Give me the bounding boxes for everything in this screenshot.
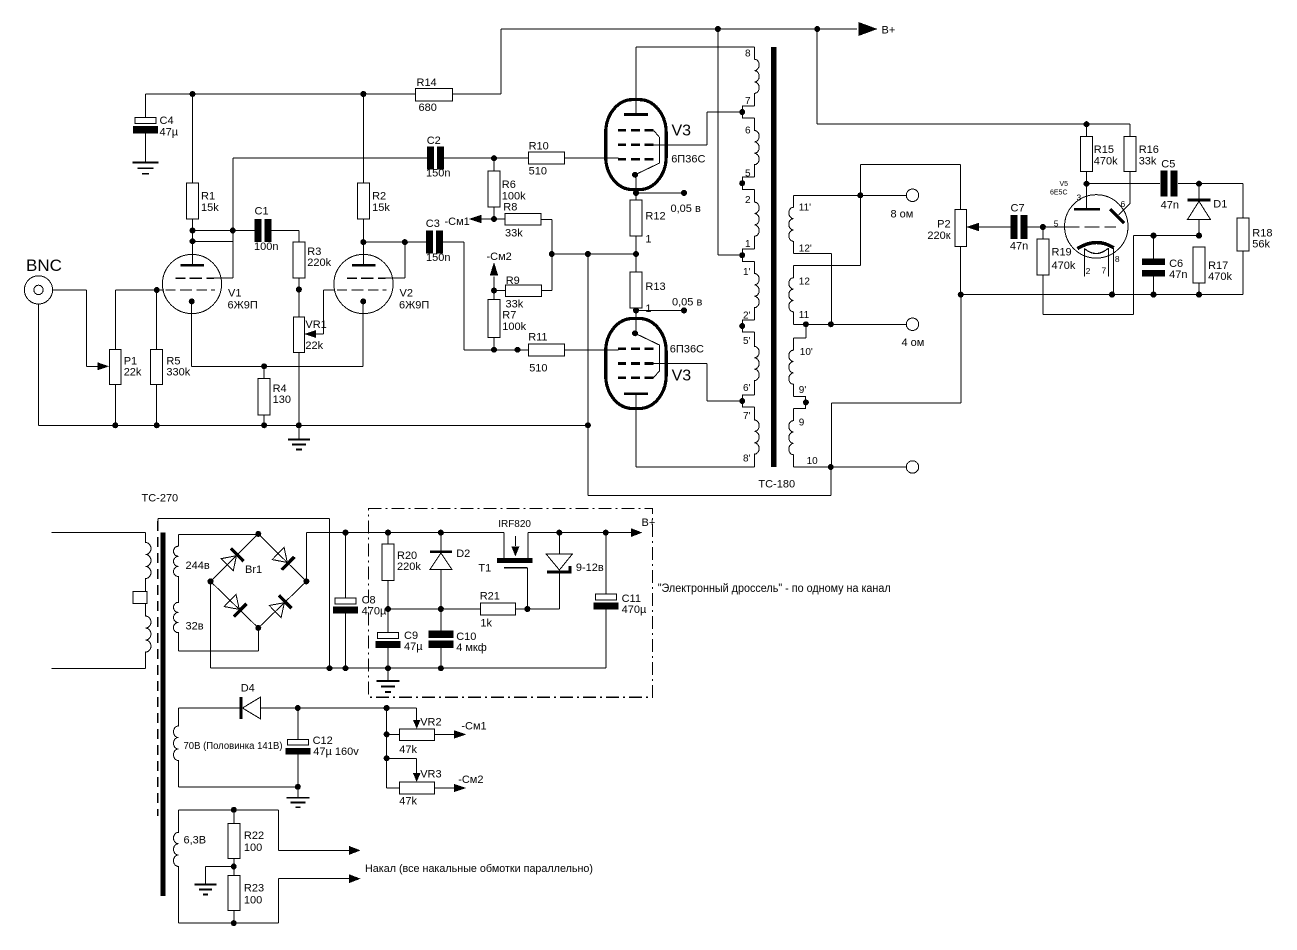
TC-270 winding 6.3V [178,809,234,811]
capacitor C5 47n [1161,171,1168,197]
svg-text:33k: 33k [1139,156,1157,168]
capacitor C11 470µ [605,533,607,594]
svg-text:6Ж9П: 6Ж9П [228,300,258,312]
svg-text:5: 5 [745,169,751,180]
svg-text:11': 11' [799,203,811,214]
potentiometer P1 22k [110,349,122,384]
svg-text:R22: R22 [244,830,264,842]
TC-270 primary winding upper [146,533,152,592]
svg-text:Накал (все накальные обмотки п: Накал (все накальные обмотки параллельно… [365,863,593,875]
svg-text:130: 130 [273,394,291,406]
diode bottom-right arm [279,595,292,608]
wire BNC down to ground rail [38,304,40,425]
svg-text:V5: V5 [1060,181,1069,188]
B+ out rail [528,532,632,534]
svg-text:C7: C7 [1011,203,1025,215]
TC-270 secondary 244v [178,534,258,536]
diode D4 [239,697,242,719]
resistor R23 100 [228,876,240,911]
node C6 top [1151,233,1157,239]
bias divider vertical [386,708,388,788]
svg-text:7: 7 [1102,266,1107,276]
node D1 top [1196,181,1202,187]
wire R2 bottom to anode [362,219,364,265]
resistor R21 1k [480,603,515,615]
svg-text:22k: 22k [124,367,142,379]
node on R11 wire [515,347,521,353]
node P1 grid junction [154,287,160,293]
svg-text:R12: R12 [645,211,665,223]
resistor R10 510 [529,152,565,164]
svg-text:470k: 470k [1208,271,1232,283]
node R15 bottom [1084,181,1090,187]
svg-text:32в: 32в [186,621,204,633]
resistor R3 220k [293,242,305,278]
jog 9' tap [794,397,806,409]
V2 screen strap [404,242,406,278]
ground rail bottom [39,424,588,426]
node anode V1 a [190,228,196,234]
wire mid junction to R12-R13 [552,253,636,255]
TC-270 primary winding lower [146,604,152,669]
capacitor C6 47n [1153,236,1155,259]
VR2 wiper [416,708,418,726]
terminal 8 ohm [906,189,918,201]
svg-text:6П36С: 6П36С [671,153,705,165]
svg-text:VR2: VR2 [420,717,441,729]
gate RC line [388,608,480,610]
resistor R1 15k [192,94,194,183]
svg-text:56k: 56k [1252,239,1270,251]
bridge Br1 diamond [211,534,307,628]
node R15 top [1084,121,1090,127]
svg-text:100k: 100k [502,190,526,202]
lead 11 / 4 ohm line [794,323,907,325]
V3 upper cathode wire [635,174,637,201]
wire R19 bottom to D1 node [1042,275,1044,314]
diode D2 [438,530,444,536]
TC-180 primary winding sections [754,47,759,106]
B+ center tap feed [717,29,719,255]
ground under C4 [133,162,159,164]
svg-text:ТС-180: ТС-180 [758,479,795,491]
TC-180 core [771,47,777,467]
node R3-VR1 [296,287,302,293]
resistor R11 510 [528,344,564,356]
svg-text:6П36С: 6П36С [670,344,704,356]
svg-text:BNC: BNC [26,256,62,275]
capacitor C7 47n [1011,215,1018,239]
diode D1 [1198,184,1200,200]
bias arrow -Cм2 [493,277,495,291]
resistor R17 470k [1193,247,1205,283]
resistor R8 33k [505,214,541,226]
svg-text:R19: R19 [1052,247,1072,259]
node anode V2 [360,239,366,245]
node V2 screen takeoff [402,239,408,245]
bridge minus wire [210,581,212,668]
resistor R19 470k [1042,227,1044,239]
heater bottom lead [234,922,279,924]
wire P1 top to V1 grid [114,290,116,349]
svg-text:VR3: VR3 [420,769,441,781]
svg-text:12: 12 [799,277,811,288]
node C2 takeoff [230,228,236,234]
svg-text:1: 1 [745,239,751,250]
svg-text:R15: R15 [1094,144,1114,156]
capacitor C10 4µF [440,609,442,631]
V5 supply feed [816,29,818,124]
V5 heater stubs pins 2 7 [1083,249,1085,277]
node R6 top [491,155,497,161]
svg-text:R2: R2 [372,191,386,203]
wire 12' down to 4ohm node [830,253,832,324]
indicator tube V5 6Е5С [1065,195,1128,258]
svg-text:11: 11 [799,310,810,321]
diode top-right arm [282,557,295,570]
svg-text:8: 8 [1115,254,1120,264]
node R7 bottom [491,347,497,353]
heater top lead [234,809,279,811]
svg-text:22k: 22k [305,340,323,352]
svg-text:220k: 220k [397,561,421,573]
svg-text:6Е5С: 6Е5С [1050,189,1068,196]
cathode wire V1-V2 [192,365,364,367]
svg-text:-См2: -См2 [487,251,512,263]
PSU ground symbol [387,668,389,681]
P2 wiper arrow to C7 [967,223,980,231]
svg-text:0,05 в: 0,05 в [671,203,701,215]
resistor R2 15k [362,94,364,183]
B+ top rail [501,28,857,30]
resistor R13 1 [630,272,642,308]
V5 grid dashes [1064,226,1079,228]
B+ out arrow [631,528,643,537]
svg-text:33k: 33k [505,228,523,240]
screen dashed line [157,521,159,816]
svg-text:1': 1' [743,267,751,278]
VR1 wiper to V2 grid [305,330,317,338]
svg-text:510: 510 [529,166,547,178]
upper screen connection to tap 7 [654,144,707,146]
svg-text:6': 6' [743,383,751,394]
wire C1 to R3 [272,230,299,232]
heater output wires [278,810,280,851]
resistor R5 330k [151,349,163,384]
resistor R15 470k [1086,124,1088,136]
ground symbol main [298,425,300,439]
wire R11 to V3b grid [564,349,618,351]
svg-text:R1: R1 [201,191,215,203]
resistor R20 220k [385,530,391,536]
lead 10 to common terminal [794,466,907,468]
resistor R14 680 [416,88,453,101]
node R9-R7 [491,288,497,294]
svg-text:330k: 330k [166,367,190,379]
wire anode node to C1 [193,230,255,232]
node D1 bottom [1196,233,1202,239]
svg-text:6: 6 [1121,199,1126,209]
bridge plus wire [305,533,307,582]
svg-text:6,3В: 6,3В [184,835,207,847]
capacitor C8 470µ [343,530,349,536]
TC-180 secondary winding 11'-12' [789,195,794,253]
wire anode node to C5 [1087,183,1161,185]
svg-text:150n: 150n [426,252,450,264]
B+ arrow top [859,22,878,36]
svg-text:4 ом: 4 ом [902,337,925,349]
bias rail -70v [261,707,417,709]
mains lead bottom [52,668,146,670]
V1 screen strap [193,240,233,242]
svg-text:3: 3 [1077,193,1082,203]
svg-text:220k: 220k [307,257,331,269]
svg-text:R6: R6 [502,179,516,191]
V5 ray electrode [1129,171,1131,203]
svg-text:510: 510 [529,363,547,375]
TC-270 core [160,533,165,897]
svg-text:9-12в: 9-12в [576,562,604,574]
svg-text:R7: R7 [502,310,516,322]
terminal common [906,461,918,473]
capacitor C12 47µ 160v [297,708,299,739]
svg-text:47µ: 47µ [404,641,423,653]
svg-text:47µ: 47µ [160,127,179,139]
capacitor C3 150n [426,231,433,254]
svg-text:1k: 1k [480,618,492,630]
svg-text:8 ом: 8 ом [891,209,914,221]
svg-text:70В (Половинка 141В): 70В (Половинка 141В) [184,741,283,752]
svg-text:2': 2' [743,311,751,322]
svg-text:100n: 100n [254,241,278,253]
feedback wire from output common [831,402,961,404]
V5 ground rail [961,294,1243,296]
svg-text:470µ: 470µ [362,606,387,618]
svg-text:100k: 100k [502,321,526,333]
TC-180 secondary winding 10'-9' [805,324,807,338]
node cathode sense lower [633,307,639,313]
V5 cathode pin 8 [1112,248,1114,295]
mains tap box [133,591,147,603]
wire R8 right down [541,218,552,220]
resistor R22 100 [233,810,235,824]
feedback ground vertical [587,254,589,496]
svg-text:R9: R9 [506,275,520,287]
svg-text:R13: R13 [645,281,665,293]
wire P1 bottom to ground rail [114,385,116,426]
svg-text:R14: R14 [417,77,437,89]
wire P2 bottom [960,247,962,295]
feedback to amp ground [588,495,831,497]
node R4 top [261,363,267,369]
TC-180 primary section jogs with taps [743,106,755,118]
V5 target dome arc [1077,242,1113,248]
wire R21 right to gate node [515,608,559,610]
resistor R6 100k [493,158,495,171]
tetrode V3 lower 6П36С flipped [606,319,667,409]
wire R13 bottom [635,308,637,333]
node R20 bottom [385,606,391,612]
triode V2 6Ж9П [334,254,393,313]
capacitor C9 47µ [387,609,389,633]
svg-text:47µ 160v: 47µ 160v [313,746,359,758]
svg-text:10': 10' [800,347,813,358]
svg-text:47k: 47k [399,796,417,808]
svg-text:Br1: Br1 [245,564,262,576]
svg-text:R23: R23 [244,883,264,895]
svg-text:ТС-270: ТС-270 [142,493,179,505]
svg-text:V2: V2 [400,288,413,300]
wire R12 bottom [635,236,637,272]
VR3 wiper feed [387,757,417,759]
svg-text:IRF820: IRF820 [498,519,531,530]
resistor R12 1 [630,200,642,236]
wire C3 down to R11 line [443,241,464,243]
svg-text:1: 1 [645,234,651,246]
svg-text:V1: V1 [228,288,241,300]
node R6-R8 [491,216,497,222]
svg-text:R11: R11 [528,332,547,344]
svg-text:R21: R21 [480,591,500,603]
resistor R7 100k [493,291,495,300]
V5 anode bar [1074,208,1100,211]
svg-text:680: 680 [419,102,437,114]
svg-text:T1: T1 [478,563,491,575]
svg-text:C1: C1 [255,206,269,218]
svg-text:-См1: -См1 [445,216,470,228]
lead 12' [794,252,832,254]
node anode V1 b [190,238,196,244]
dash-dot module box [369,509,653,698]
svg-text:15k: 15k [372,202,390,214]
svg-text:D4: D4 [241,683,255,695]
node ground rail V5 [958,292,964,298]
bias arrow -Cм1 [469,215,482,223]
svg-text:B+: B+ [642,517,656,529]
wire R10 to V3 grid [565,157,619,159]
svg-text:6: 6 [745,126,751,137]
TC-180 secondary winding 9-10 [789,408,794,467]
svg-text:47n: 47n [1010,241,1028,253]
svg-text:B+: B+ [882,25,896,37]
sense line 0,05v upper [636,192,684,194]
TC-180 secondary winding 12-11 [789,265,794,324]
tetrode V3 upper 6П36С [606,100,667,190]
diode top-left arm [231,548,244,561]
svg-text:100: 100 [244,895,262,907]
svg-text:R16: R16 [1139,144,1159,156]
svg-text:47k: 47k [399,744,417,756]
triode V1 6Ж9П [162,254,221,313]
node cathode sense upper [633,190,639,196]
BNC input connector [24,276,52,304]
svg-text:-См2: -См2 [458,774,483,786]
svg-text:9: 9 [799,418,805,429]
svg-text:-См1: -См1 [461,721,486,733]
capacitor C2 150n [233,157,427,159]
svg-text:V3: V3 [672,368,692,385]
svg-text:100: 100 [244,842,262,854]
mains lead top [52,532,146,534]
svg-text:10: 10 [807,456,819,467]
wire anode V2 to C3 [363,241,427,243]
svg-text:C4: C4 [160,115,174,127]
resistor R18 56k [1242,184,1244,218]
svg-text:"Электронный дроссель" - по од: "Электронный дроссель" - по одному на ка… [658,583,891,595]
lower screen connection to tap 6' [654,363,707,365]
svg-text:C5: C5 [1161,159,1175,171]
resistor R16 33k [1129,124,1131,136]
svg-text:D2: D2 [456,548,470,560]
node D2 bottom [438,606,444,612]
wire R5 bottom [156,385,158,426]
svg-text:220к: 220к [927,230,950,242]
lead 11' to 8ohm terminal [794,194,907,196]
svg-text:2: 2 [745,195,751,206]
svg-text:D1: D1 [1213,199,1227,211]
TC-270 winding 70V [178,707,240,709]
svg-text:470k: 470k [1052,260,1076,272]
wire 8ohm node to P2 [859,165,861,196]
svg-text:470k: 470k [1094,156,1118,168]
svg-text:7': 7' [743,411,751,422]
potentiometer VR2 47k [387,733,400,735]
wire BNC to P1 wiper [53,289,87,291]
wire R3 to VR1 [298,278,300,317]
svg-text:470µ: 470µ [622,604,647,616]
svg-text:5': 5' [743,336,751,347]
wire R5 top [156,290,158,349]
svg-text:7: 7 [745,96,751,107]
wire C7 to V5 grid [1028,226,1064,228]
svg-text:12': 12' [799,244,812,255]
heater mid ground [206,866,234,868]
wire VR1 bottom [298,352,300,425]
V3 upper anode wire [635,47,637,115]
resistor R4 130 [263,366,265,378]
screen ground hook [157,519,159,521]
svg-text:47n: 47n [1161,200,1179,212]
svg-text:1: 1 [645,303,651,315]
svg-text:8': 8' [743,454,751,465]
wire V1 cathode down [191,301,193,366]
svg-text:P2: P2 [937,218,950,230]
svg-text:6Ж9П: 6Ж9П [399,300,429,312]
wire C5 right [1178,183,1243,185]
wire V2 cathode [362,301,364,366]
wire C2 to R10 [444,157,529,159]
svg-text:4 мкф: 4 мкф [456,642,487,654]
svg-text:0,05 в: 0,05 в [672,297,702,309]
zener diode 9-12v [558,533,560,555]
terminal 4 ohm [906,318,918,330]
VR3 output arrow -Cм2 [435,787,454,789]
svg-text:15k: 15k [201,202,219,214]
node R19 top [1040,224,1046,230]
resistor R9 33k [506,285,542,297]
V3 lower anode wire [635,394,637,467]
capacitor C4 47µ [145,94,147,118]
potentiometer VR3 47k [387,787,400,789]
wire R1 bottom to anode node [192,219,194,265]
VR2 output arrow -Cм1 [435,733,454,735]
svg-text:V3: V3 [672,123,692,140]
svg-text:8: 8 [745,49,751,60]
svg-text:C2: C2 [427,135,441,147]
secondary lead bottom to bridge [178,650,258,652]
svg-text:244в: 244в [186,560,210,572]
potentiometer P2 220k [955,210,967,247]
